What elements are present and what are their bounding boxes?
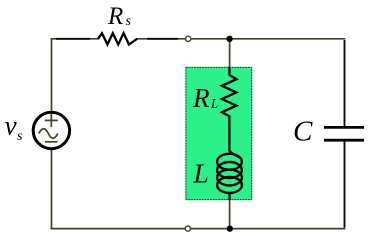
- svg-text:R: R: [107, 3, 123, 30]
- svg-text:L: L: [193, 158, 209, 189]
- svg-text:s: s: [126, 14, 132, 29]
- svg-text:L: L: [210, 96, 218, 111]
- svg-text:C: C: [293, 116, 313, 148]
- svg-text:v: v: [5, 111, 17, 141]
- svg-text:s: s: [17, 129, 23, 144]
- svg-text:R: R: [192, 83, 210, 113]
